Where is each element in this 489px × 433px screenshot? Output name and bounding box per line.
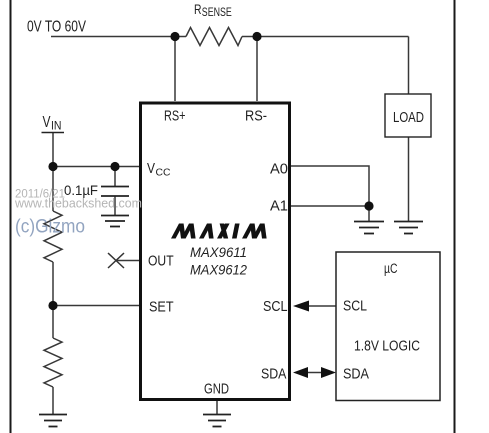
svg-text:SDA: SDA (343, 367, 369, 383)
svg-text:SDA: SDA (261, 367, 287, 383)
svg-text:SET: SET (149, 300, 174, 316)
svg-text:A1: A1 (270, 199, 288, 215)
svg-text:CC: CC (156, 167, 171, 179)
svg-text:1.8V LOGIC: 1.8V LOGIC (354, 339, 420, 355)
svg-text:SENSE: SENSE (202, 7, 232, 19)
svg-text:SCL: SCL (263, 299, 288, 315)
svg-text:OUT: OUT (148, 254, 174, 270)
svg-text:GND: GND (204, 382, 229, 398)
svg-text:A0: A0 (270, 162, 288, 178)
svg-text:MAX9611: MAX9611 (190, 244, 247, 260)
svg-text:0.1µF: 0.1µF (64, 182, 98, 198)
svg-text:SCL: SCL (343, 299, 367, 315)
svg-text:V: V (147, 161, 155, 177)
svg-text:(c)Gizmo: (c)Gizmo (15, 217, 85, 238)
svg-text:IN: IN (51, 121, 62, 133)
svg-text:MAX9612: MAX9612 (190, 262, 247, 278)
svg-text:0V TO 60V: 0V TO 60V (27, 19, 87, 36)
svg-text:V: V (43, 114, 52, 131)
svg-text:RS-: RS- (245, 109, 267, 125)
svg-text:www.thebackshed.com: www.thebackshed.com (14, 197, 142, 211)
svg-text:RS+: RS+ (164, 109, 186, 125)
svg-text:R: R (194, 2, 202, 17)
svg-text:LOAD: LOAD (393, 110, 424, 126)
svg-text:µC: µC (384, 261, 398, 276)
